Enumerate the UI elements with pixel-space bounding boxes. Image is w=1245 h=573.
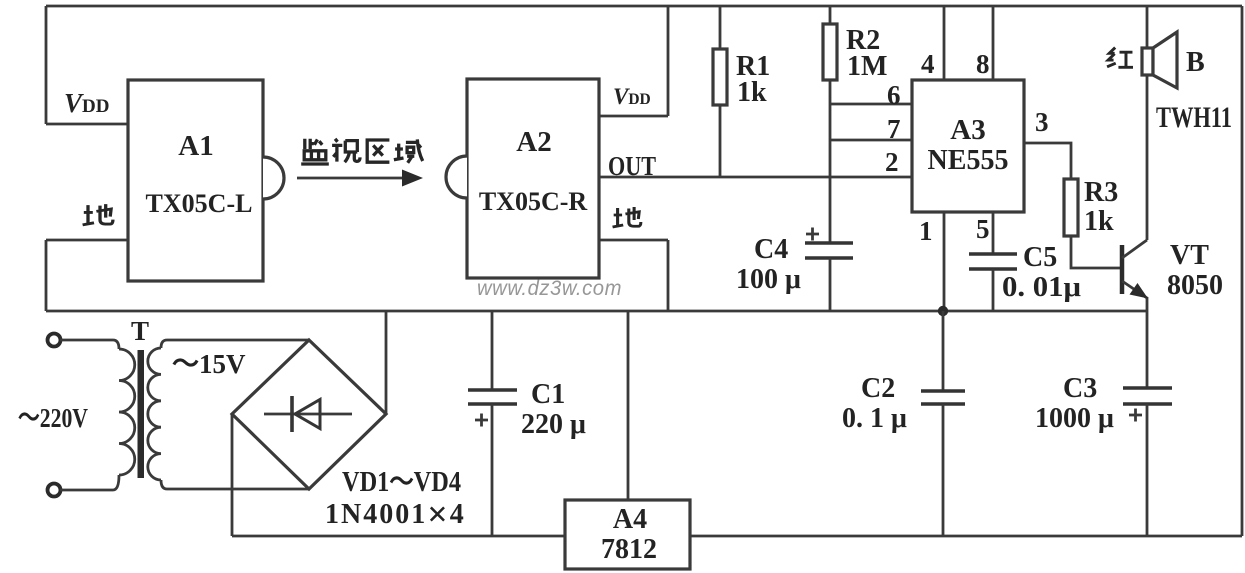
wire bridge plus output up to bus [385, 311, 388, 414]
svg-text:3: 3 [1035, 107, 1049, 137]
svg-text:1N4001×4: 1N4001×4 [325, 494, 466, 534]
svg-text:A3: A3 [950, 114, 985, 146]
node 地 label (A1 ground) [83, 204, 113, 225]
wire pin 7 [830, 139, 912, 142]
speaker B TWH11 [1146, 6, 1149, 49]
transformer T primary terminal bottom [48, 484, 61, 497]
bridge rectifier VD1~VD4 diamond [232, 340, 386, 489]
junction dot (pin1 / C2 / bus) [938, 306, 948, 316]
wire pin 5 down to C5 [992, 212, 995, 254]
svg-text:0. 1 μ: 0. 1 μ [842, 403, 907, 434]
transformer T primary terminal top [48, 334, 61, 347]
svg-text:C5: C5 [1023, 242, 1057, 273]
node 红 label (red lead) [1107, 48, 1133, 68]
resistor R2 [829, 6, 832, 243]
svg-text:100 μ: 100 μ [736, 264, 801, 295]
svg-text:0. 01μ: 0. 01μ [1002, 272, 1081, 303]
capacitor C1 220u electrolytic [491, 311, 494, 390]
wire secondary bottom lead to bridge bottom [161, 480, 309, 489]
wire ground bus [46, 310, 1147, 313]
svg-text:1: 1 [919, 216, 933, 246]
svg-text:TX05C-R: TX05C-R [479, 187, 588, 216]
wire top +12V rail [46, 5, 1242, 8]
svg-text:5: 5 [976, 214, 990, 244]
svg-text:1k: 1k [1084, 206, 1114, 237]
capacitor C2 0.1u [942, 311, 945, 391]
svg-text:～220V: ～220V [18, 403, 88, 433]
arrow 监视区域 (monitored zone) [297, 177, 406, 180]
svg-text:6: 6 [887, 80, 901, 110]
svg-text:2: 2 [885, 147, 899, 177]
block A4 7812 regulator [565, 500, 690, 569]
svg-text:4: 4 [921, 49, 935, 79]
diode D inside bridge [264, 413, 352, 416]
svg-text:VT: VT [1170, 240, 1209, 271]
svg-text:8050: 8050 [1167, 270, 1223, 301]
svg-text:C4: C4 [754, 234, 788, 265]
wire pin 4 [943, 6, 946, 80]
block A2 TX05C-R [467, 79, 599, 278]
svg-text:R3: R3 [1084, 177, 1118, 208]
wire right border (A4 output to top rail) [1241, 6, 1244, 536]
svg-text:C3: C3 [1063, 373, 1097, 404]
svg-text:B: B [1186, 47, 1205, 78]
wire A2 VDD vertical to top rail [667, 6, 670, 116]
svg-text:VDD: VDD [64, 88, 109, 118]
resistor R3 [1064, 179, 1078, 236]
wire OUT line from A2 to NE555 pin 2 [599, 176, 912, 179]
wire pin 1 down to bus [943, 212, 946, 311]
wire bottom bus left segment (bridge minus to A4) [232, 535, 565, 538]
svg-text:TWH11: TWH11 [1156, 101, 1232, 134]
lens bump on A1 right side [263, 157, 284, 199]
svg-text:7: 7 [887, 114, 901, 144]
wire A4 top pin up to ground bus [627, 311, 630, 500]
svg-text:TX05C-L: TX05C-L [146, 189, 253, 218]
svg-text:A4: A4 [613, 504, 647, 535]
svg-text:VDD: VDD [613, 84, 651, 109]
svg-text:C2: C2 [861, 373, 895, 404]
wire pin 6 [830, 103, 912, 106]
capacitor C3 1000u electrolytic [1146, 311, 1149, 388]
lens bump on A2 left side [446, 156, 467, 198]
svg-text:～15V: ～15V [172, 349, 246, 379]
wire A1 ground horizontal [46, 239, 128, 242]
svg-text:7812: 7812 [601, 534, 657, 565]
node 地 label (A2 ground) [613, 207, 641, 227]
transformer secondary winding [148, 348, 161, 480]
block A1 TX05C-L [128, 80, 263, 281]
svg-text:8: 8 [976, 49, 990, 79]
svg-text:A1: A1 [178, 130, 213, 162]
wire primary bottom lead [60, 475, 119, 490]
svg-text:NE555: NE555 [928, 145, 1009, 176]
svg-text:OUT: OUT [608, 151, 656, 181]
transistor Q1 VT 8050 [1120, 245, 1125, 294]
svg-text:C1: C1 [531, 379, 565, 410]
svg-text:220 μ: 220 μ [521, 409, 586, 440]
resistor R1 [719, 6, 722, 177]
transformer core [138, 350, 145, 478]
wire bottom bus right segment (A4 out to right border) [690, 535, 1242, 538]
svg-text:www.dz3w.com: www.dz3w.com [477, 276, 622, 300]
svg-text:1000 μ: 1000 μ [1035, 403, 1114, 434]
wire A1 VDD horizontal [46, 123, 128, 126]
wire bridge minus output down to bottom bus [231, 414, 234, 536]
capacitor C4 (electrolytic 100u) [805, 243, 853, 258]
wire primary top lead [60, 340, 119, 349]
wire A1 VDD: left vertical from top rail [45, 6, 48, 124]
node 监视区域 label [301, 139, 423, 164]
wire A2 ground vertical down to bus [667, 240, 670, 311]
wire A2 VDD horizontal [599, 115, 668, 118]
svg-text:1M: 1M [847, 51, 887, 82]
wire pin 8 [992, 6, 995, 80]
wire A2 ground horizontal [599, 239, 668, 242]
wire pin 3 to R3 [1024, 143, 1071, 179]
wire secondary top lead to bridge top [161, 340, 309, 348]
wire A1 ground vertical down to ground bus [45, 240, 48, 311]
svg-text:T: T [131, 316, 149, 346]
capacitor C5 0.01u [969, 254, 1017, 269]
transformer primary winding [119, 349, 135, 475]
svg-text:A2: A2 [516, 126, 551, 158]
op-amp U1: timer block A3 NE555 [912, 80, 1024, 212]
svg-text:1k: 1k [737, 77, 767, 108]
